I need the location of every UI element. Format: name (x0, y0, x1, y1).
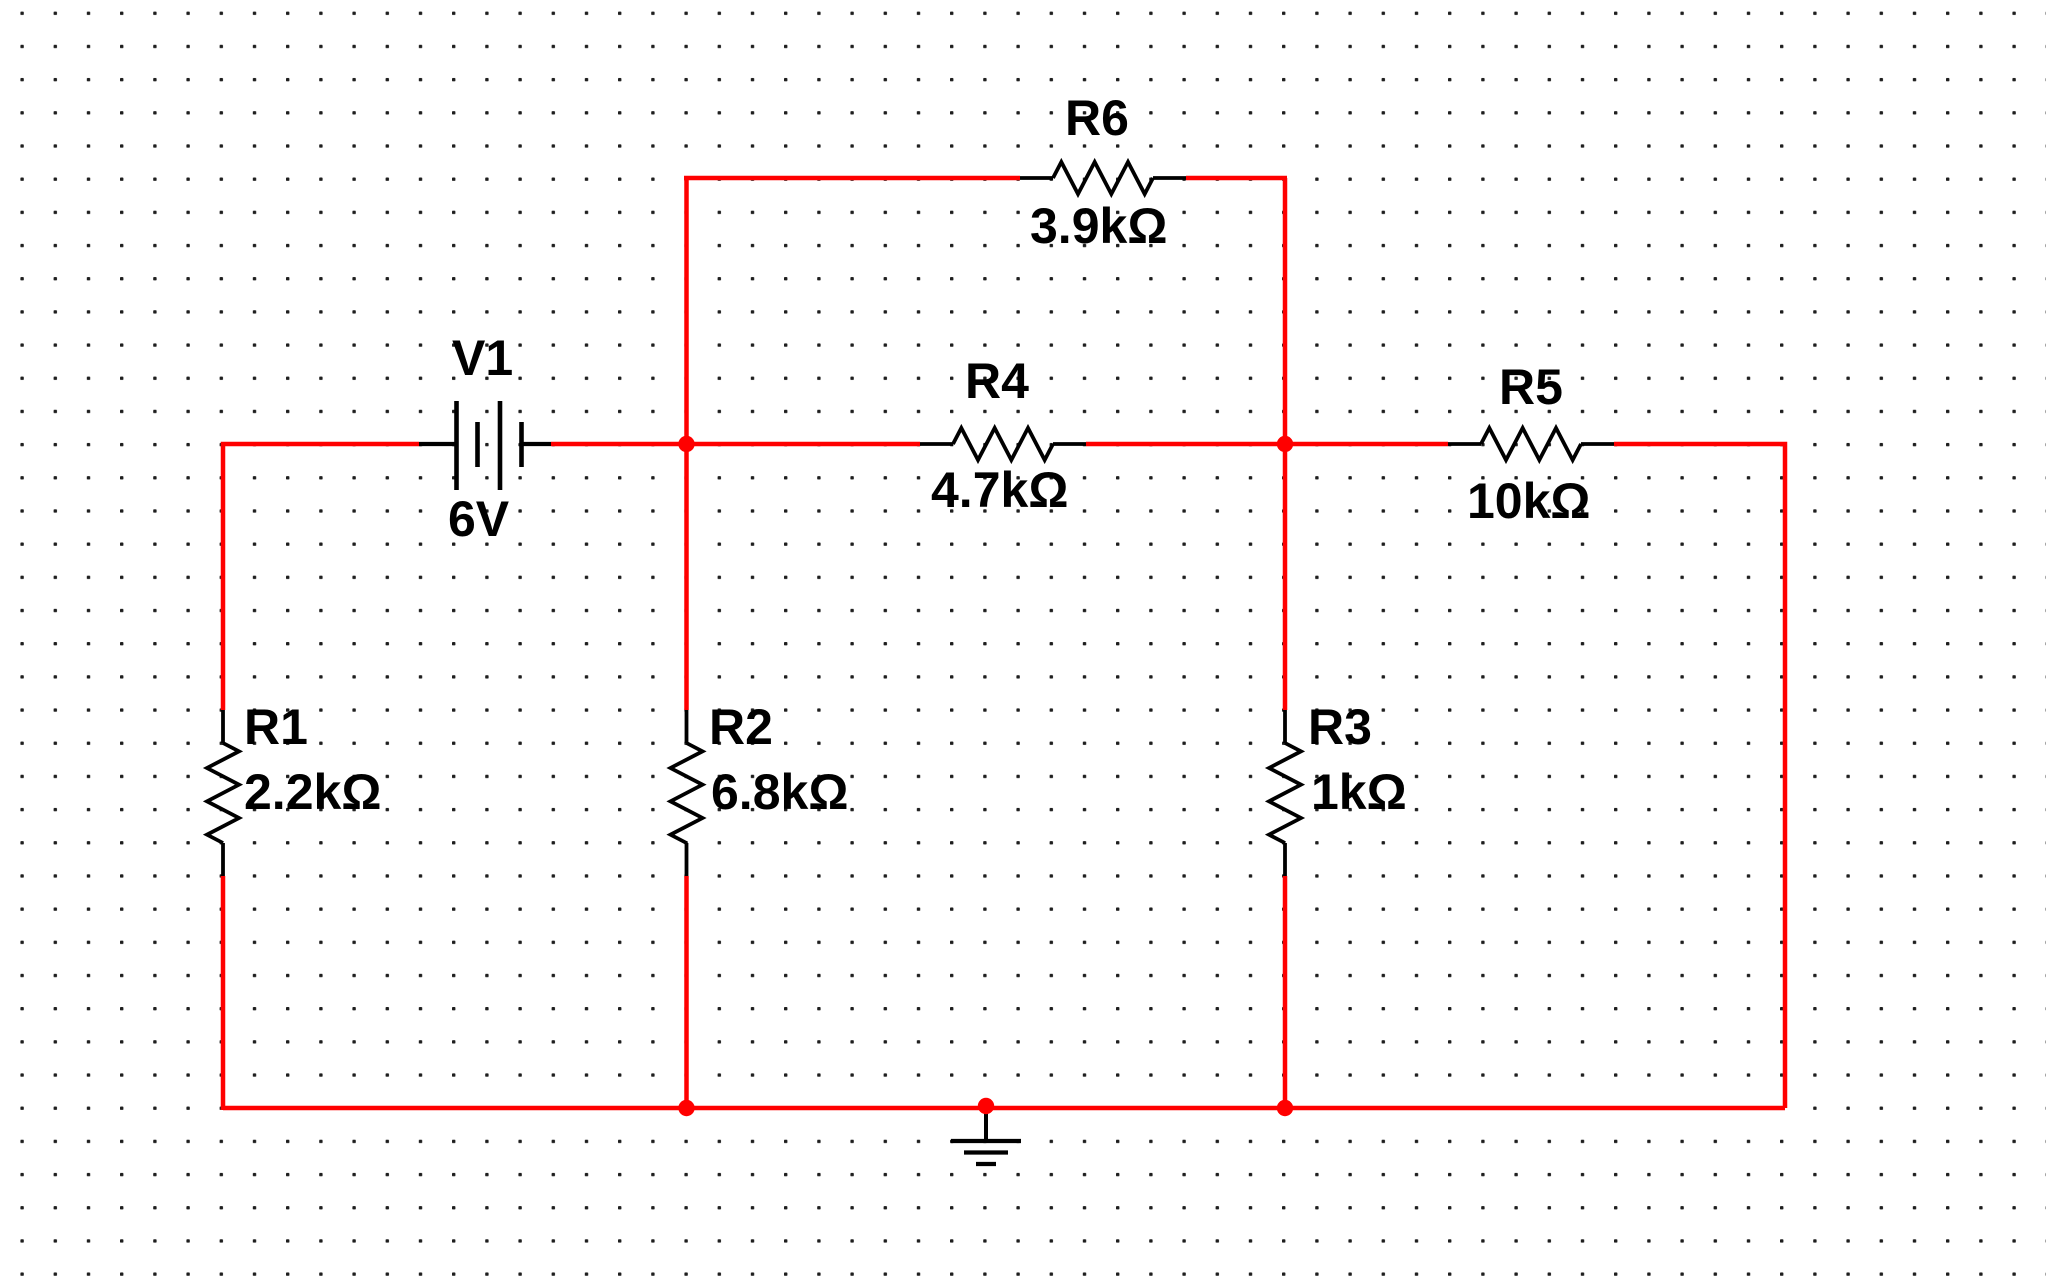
label R1 (244, 702, 308, 752)
wire: R4 right to R5 left (1086, 442, 1448, 447)
wire: battery right to R4 left (551, 442, 920, 447)
value 4.7k (931, 465, 1068, 515)
node: junction bottom R2 (678, 1100, 694, 1116)
node: junction V1/R2/R4 (678, 436, 694, 452)
label V1 (452, 333, 513, 383)
label R2 (709, 702, 773, 752)
resistor R1 (207, 710, 239, 876)
node: junction bottom R3 (1277, 1100, 1293, 1116)
value 1k (1311, 767, 1407, 817)
resistor R5 (1448, 428, 1614, 460)
wire: mid-right vertical below R3 (1283, 876, 1288, 1110)
wire: top loop right segment from R6 (1186, 176, 1287, 181)
value 10k (1467, 476, 1591, 526)
node: junction R4/R3/R5 (1277, 436, 1293, 452)
wire: top loop left segment to R6 (684, 176, 1020, 181)
label R6 (1065, 93, 1129, 143)
ground (951, 1108, 1021, 1164)
wire: mid-left vertical, top loop down to R2 (684, 178, 689, 710)
label R3 (1308, 702, 1372, 752)
wire: mid-left vertical below R2 (684, 876, 689, 1110)
wire: left rail below R1 (221, 876, 226, 1110)
resistor R4 (920, 428, 1086, 460)
resistor R2 (671, 710, 703, 876)
value 2.2k (244, 767, 381, 817)
value 3.9k (1030, 201, 1167, 251)
label R4 (965, 356, 1029, 406)
resistor R6 (1020, 162, 1186, 194)
wire: bottom rail (223, 1106, 1785, 1111)
wire: main horizontal, left corner to battery (223, 444, 419, 710)
node: junction ground (978, 1098, 994, 1114)
label R5 (1499, 362, 1563, 412)
battery V1 (419, 401, 551, 490)
wire: R5 right to right corner, down right side (1614, 444, 1785, 1108)
value 6V (448, 494, 509, 544)
value 6.8k (711, 767, 848, 817)
wire: mid-right vertical, top loop down to R3 (1283, 178, 1288, 710)
resistor R3 (1269, 710, 1301, 876)
